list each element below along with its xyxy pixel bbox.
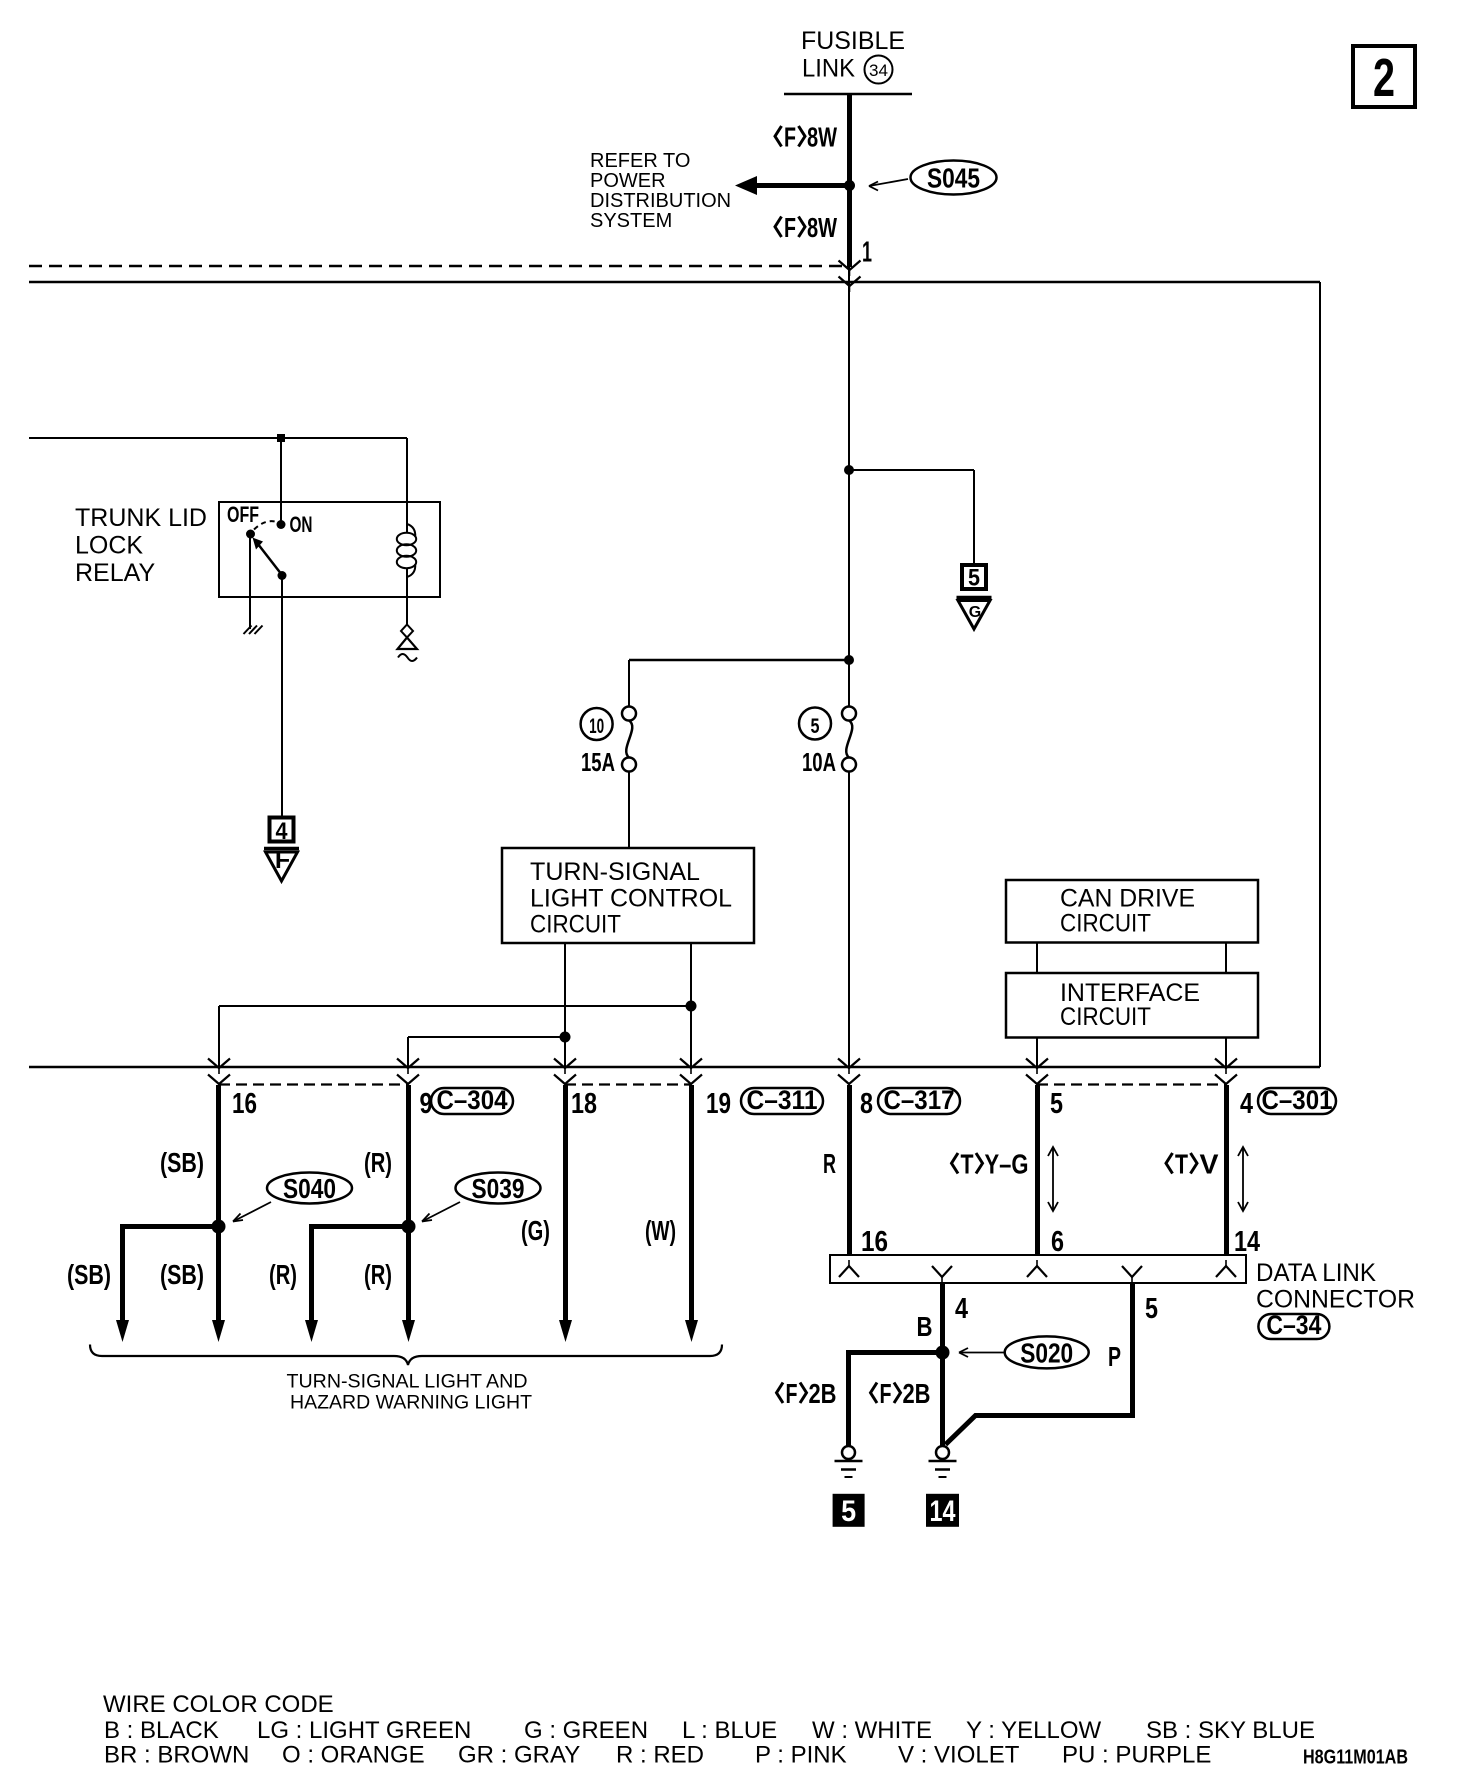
svg-text:F: F [880, 1378, 892, 1409]
svg-text:1: 1 [862, 237, 872, 269]
svg-text:BR : BROWN: BR : BROWN [104, 1742, 249, 1769]
svg-text:S039: S039 [472, 1173, 525, 1204]
svg-text:15A: 15A [581, 747, 615, 777]
svg-text:R : RED: R : RED [616, 1742, 704, 1769]
svg-text:2B: 2B [809, 1378, 837, 1409]
svg-text:ON: ON [290, 512, 313, 537]
svg-text:LINK: LINK [802, 55, 855, 83]
svg-text:S020: S020 [1020, 1337, 1073, 1368]
svg-text:5: 5 [968, 565, 980, 592]
svg-text:REFER TO: REFER TO [590, 150, 690, 172]
svg-text:4: 4 [1240, 1088, 1253, 1120]
svg-text:POWER: POWER [590, 170, 666, 192]
svg-text:5: 5 [811, 715, 820, 738]
svg-text:4: 4 [955, 1293, 968, 1325]
svg-text:CIRCUIT: CIRCUIT [1060, 910, 1151, 938]
svg-text:(R): (R) [364, 1259, 392, 1290]
svg-text:C–304: C–304 [437, 1085, 508, 1115]
svg-text:14: 14 [1234, 1226, 1260, 1258]
svg-text:SB : SKY BLUE: SB : SKY BLUE [1146, 1717, 1315, 1744]
svg-text:F: F [275, 846, 290, 874]
svg-text:G : GREEN: G : GREEN [524, 1717, 648, 1744]
svg-text:16: 16 [232, 1088, 257, 1120]
svg-text:O : ORANGE: O : ORANGE [282, 1742, 425, 1769]
svg-text:Y–G: Y–G [985, 1149, 1029, 1180]
svg-text:TURN-SIGNAL LIGHT AND: TURN-SIGNAL LIGHT AND [287, 1371, 528, 1393]
svg-text:WIRE COLOR CODE: WIRE COLOR CODE [103, 1691, 334, 1718]
svg-text:F: F [784, 212, 796, 243]
svg-text:F: F [784, 122, 796, 153]
svg-text:DATA LINK: DATA LINK [1256, 1259, 1376, 1287]
svg-text:C–317: C–317 [884, 1085, 955, 1115]
svg-text:(R): (R) [269, 1259, 297, 1290]
svg-text:TURN-SIGNAL: TURN-SIGNAL [530, 858, 700, 886]
svg-text:LIGHT CONTROL: LIGHT CONTROL [530, 885, 732, 913]
svg-text:C–301: C–301 [1262, 1085, 1333, 1115]
svg-text:(W): (W) [645, 1215, 676, 1246]
svg-text:(SB): (SB) [67, 1259, 111, 1290]
svg-text:T: T [961, 1149, 974, 1180]
svg-text:CIRCUIT: CIRCUIT [1060, 1003, 1151, 1031]
svg-text:OFF: OFF [227, 502, 259, 527]
svg-text:8W: 8W [807, 212, 837, 243]
svg-text:TRUNK LID: TRUNK LID [75, 504, 207, 532]
svg-text:10A: 10A [802, 747, 836, 777]
svg-text:10: 10 [589, 715, 604, 738]
svg-text:R: R [823, 1148, 836, 1179]
svg-text:C–34: C–34 [1266, 1310, 1321, 1340]
svg-text:PU : PURPLE: PU : PURPLE [1062, 1742, 1211, 1769]
svg-text:H8G11M01AB: H8G11M01AB [1303, 1747, 1408, 1769]
svg-text:5: 5 [1050, 1088, 1063, 1120]
svg-text:V: V [1200, 1149, 1219, 1180]
svg-text:G: G [969, 604, 981, 621]
svg-text:W : WHITE: W : WHITE [812, 1717, 932, 1744]
svg-text:FUSIBLE: FUSIBLE [801, 27, 905, 55]
svg-text:DISTRIBUTION: DISTRIBUTION [590, 190, 731, 212]
svg-text:6: 6 [1051, 1226, 1064, 1258]
svg-text:(R): (R) [364, 1147, 392, 1178]
svg-text:8: 8 [860, 1088, 873, 1120]
svg-text:SYSTEM: SYSTEM [590, 210, 672, 232]
svg-text:LG : LIGHT GREEN: LG : LIGHT GREEN [257, 1717, 471, 1744]
svg-text:4: 4 [276, 818, 289, 845]
svg-text:S040: S040 [283, 1173, 336, 1204]
svg-text:14: 14 [930, 1495, 956, 1528]
svg-text:GR : GRAY: GR : GRAY [458, 1742, 580, 1769]
svg-text:34: 34 [869, 61, 888, 80]
svg-text:CIRCUIT: CIRCUIT [530, 911, 621, 939]
svg-text:LOCK: LOCK [75, 532, 143, 560]
svg-text:V : VIOLET: V : VIOLET [898, 1742, 1020, 1769]
svg-text:P : PINK: P : PINK [755, 1742, 847, 1769]
svg-text:(G): (G) [521, 1215, 550, 1246]
svg-text:Y : YELLOW: Y : YELLOW [966, 1717, 1102, 1744]
svg-text:5: 5 [1145, 1293, 1158, 1325]
svg-text:F: F [786, 1378, 798, 1409]
svg-text:16: 16 [861, 1226, 888, 1258]
svg-text:B : BLACK: B : BLACK [104, 1717, 219, 1744]
svg-text:CAN DRIVE: CAN DRIVE [1060, 885, 1195, 913]
svg-text:P: P [1108, 1341, 1121, 1372]
svg-text:L : BLUE: L : BLUE [682, 1717, 777, 1744]
svg-text:C–311: C–311 [747, 1085, 818, 1115]
svg-text:S045: S045 [927, 163, 980, 194]
svg-text:2B: 2B [903, 1378, 931, 1409]
svg-text:(SB): (SB) [160, 1259, 204, 1290]
svg-text:8W: 8W [807, 122, 837, 153]
svg-text:5: 5 [841, 1495, 856, 1528]
svg-text:B: B [917, 1311, 933, 1342]
svg-text:HAZARD WARNING LIGHT: HAZARD WARNING LIGHT [290, 1392, 532, 1414]
svg-text:18: 18 [571, 1088, 597, 1120]
svg-text:2: 2 [1373, 48, 1395, 108]
svg-text:19: 19 [706, 1088, 731, 1120]
svg-text:T: T [1175, 1149, 1188, 1180]
svg-text:RELAY: RELAY [75, 559, 155, 587]
svg-text:(SB): (SB) [160, 1147, 204, 1178]
